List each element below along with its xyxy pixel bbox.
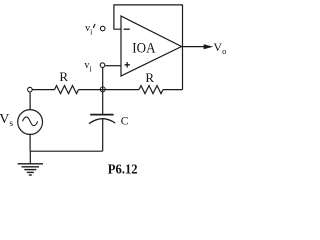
svg-text:vi: vi xyxy=(85,23,93,36)
capacitor C curved bottom plate xyxy=(89,119,115,124)
wire: feedback right vertical from top rail down to bottom rail xyxy=(182,4,184,89)
wire: main rail between resistors through junction xyxy=(79,89,140,91)
source Vs top terminal circle xyxy=(28,87,33,92)
svg-text:Vo: Vo xyxy=(213,40,226,56)
wire: op-amp output xyxy=(182,46,205,48)
svg-text:IOA: IOA xyxy=(132,41,156,57)
wire: capacitor bottom plate to bottom rail xyxy=(102,119,104,151)
node vi terminal circle xyxy=(100,63,105,68)
output arrowhead xyxy=(204,44,214,49)
node vi-prime terminal circle xyxy=(100,26,105,31)
label vi-prime tick mark xyxy=(94,24,95,27)
svg-text:R: R xyxy=(145,70,154,85)
resistor R (right/feedback) zigzag xyxy=(139,86,163,94)
resistor R (left) zigzag xyxy=(55,86,79,94)
svg-text:P6.12: P6.12 xyxy=(108,163,138,178)
wire: feedback top rail xyxy=(114,4,183,6)
wire: vi node down through junction to capacitor xyxy=(102,67,104,114)
wire: Vs terminal to source circle xyxy=(29,93,31,110)
capacitor C top plate xyxy=(90,114,113,116)
svg-text:Vs: Vs xyxy=(0,112,13,129)
wire: ground stem xyxy=(29,151,31,164)
op-amp non-inverting input plus sign xyxy=(125,62,130,67)
wire: feedback left vertical down to inverting input xyxy=(114,4,121,29)
ground symbol xyxy=(18,164,43,175)
source Vs sine symbol xyxy=(23,117,38,126)
wire: bottom rail xyxy=(30,150,103,152)
op-amp inverting input minus sign xyxy=(124,28,130,30)
wire: source bottom down to bottom rail xyxy=(29,134,31,151)
svg-text:R: R xyxy=(59,69,68,84)
wire: non-inverting input to node vi xyxy=(105,65,121,67)
wire: main horizontal rail left of left resistor xyxy=(32,89,54,91)
svg-text:C: C xyxy=(121,115,129,127)
op-amp U1 triangle body xyxy=(121,16,182,76)
source Vs circle xyxy=(18,110,43,135)
svg-text:vi: vi xyxy=(84,60,92,73)
junction node circle at vi/C xyxy=(100,87,105,92)
wire: right resistor to right vertical xyxy=(163,89,183,91)
